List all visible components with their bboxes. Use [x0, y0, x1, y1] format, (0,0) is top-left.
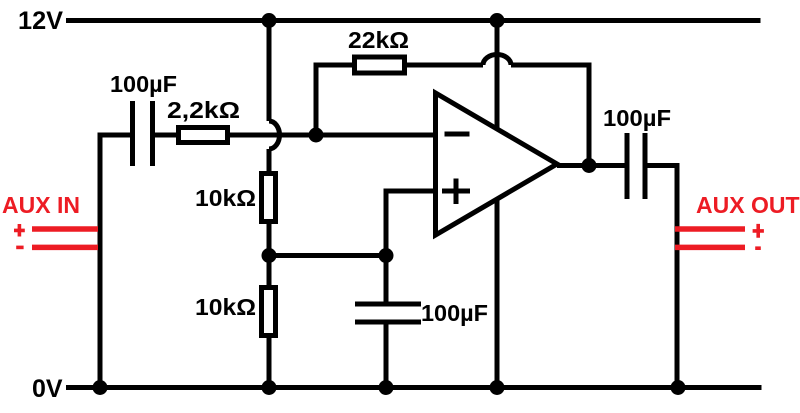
svg-text:10kΩ: 10kΩ: [195, 185, 256, 211]
wire 12V rail down to hop: [267, 21, 272, 122]
capacitor C3 100µF plates: [625, 133, 630, 199]
junction dot 0V input leg: [93, 380, 108, 395]
resistor R4 22kΩ: [355, 57, 405, 73]
AUX OUT plus terminal wire: [675, 226, 745, 232]
AUX OUT minus sign: [755, 246, 761, 250]
wire 12V rail: [66, 18, 761, 23]
op-amp U1 triangle: [436, 93, 558, 235]
junction dot divider midpoint: [262, 248, 277, 263]
junction dot bias node: [379, 248, 394, 263]
wire bias node to op-amp non-inverting input: [386, 191, 436, 256]
wire inverting node up to R4: [316, 65, 354, 135]
AUX IN plus terminal wire: [32, 226, 98, 232]
junction dot 12V rail / V+ feed: [490, 13, 505, 28]
wire hop over V+ feed: [483, 55, 511, 65]
junction dot 0V divider: [262, 380, 277, 395]
resistor R1 2,2kΩ: [179, 128, 228, 143]
op-amp inverting input symbol: [445, 132, 470, 137]
junction dot 0V C2: [379, 380, 394, 395]
junction dot inverting input node: [309, 128, 324, 143]
wire input left leg: AUX IN to C1 and down to 0V: [100, 135, 133, 388]
wire 0V rail: [66, 385, 762, 390]
wire bias node to C2 top plate: [384, 256, 389, 305]
svg-text:0V: 0V: [32, 375, 63, 403]
resistor R3 10kΩ: [262, 288, 276, 336]
svg-text:2,2kΩ: 2,2kΩ: [167, 97, 240, 123]
op-amp non-inverting input symbol: [442, 179, 470, 205]
svg-text:100µF: 100µF: [110, 71, 177, 97]
wire divider midpoint to bias node: [269, 253, 386, 258]
AUX IN minus sign: [16, 246, 23, 250]
AUX IN plus sign: [14, 224, 25, 237]
svg-text:AUX OUT: AUX OUT: [696, 192, 800, 218]
svg-text:22kΩ: 22kΩ: [348, 27, 409, 53]
AUX IN minus terminal wire: [32, 245, 98, 251]
wire C1 to op-amp inverting input (through R1): [153, 133, 437, 138]
wire C2 bottom plate to 0V: [384, 322, 389, 388]
svg-text:100µF: 100µF: [421, 300, 488, 326]
wire R4 to hop: [407, 63, 483, 68]
junction dot 0V V-: [490, 380, 505, 395]
wire hop over input wire: [269, 121, 280, 149]
svg-text:AUX IN: AUX IN: [2, 192, 80, 218]
wire V+ supply feed through op-amp to 0V: [495, 21, 500, 388]
junction dot output node: [582, 158, 597, 173]
junction dot 0V output leg: [671, 380, 686, 395]
wire hop down through R2,R3 to 0V: [267, 149, 272, 388]
AUX OUT minus terminal wire: [675, 245, 745, 251]
wire C3 to AUX OUT and down to 0V: [645, 166, 677, 388]
svg-text:10kΩ: 10kΩ: [195, 294, 256, 320]
resistor R2 10kΩ: [262, 174, 276, 222]
wire hop to output node corner: [511, 65, 589, 166]
junction dot 12V rail / divider: [262, 13, 277, 28]
AUX OUT plus sign: [753, 224, 764, 238]
capacitor C1 100µF plates: [130, 101, 135, 166]
capacitor C2 100µF plates: [355, 302, 421, 307]
svg-text:12V: 12V: [18, 7, 63, 35]
svg-text:100µF: 100µF: [603, 105, 671, 131]
wire op-amp output to C3: [557, 163, 627, 168]
